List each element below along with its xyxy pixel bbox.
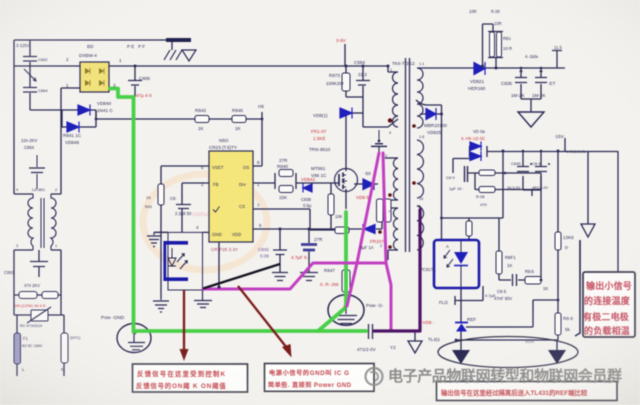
wire secondary gnd rail <box>456 340 558 350</box>
transformer polarity dots <box>378 118 416 249</box>
diode VD847 <box>340 108 352 119</box>
node left Power GND circle <box>117 324 151 353</box>
node SGND ellipse <box>438 337 578 368</box>
wire fb row1 <box>468 173 542 190</box>
node H5 <box>253 112 262 166</box>
fuse F1 <box>14 333 21 364</box>
diode VD845 <box>363 179 374 191</box>
wire choke bottom <box>14 249 61 251</box>
faint watermark ring <box>143 174 267 270</box>
wire varistor row <box>14 315 64 333</box>
wire L rail <box>13 40 15 194</box>
wire top PE bus <box>14 39 167 41</box>
resistor snub B <box>385 199 392 222</box>
resistor 15K gate <box>279 186 293 193</box>
wire N rail <box>60 88 62 194</box>
wire AC N to bridge <box>61 87 80 89</box>
callout box 1 <box>133 364 248 392</box>
node right Power GND circle <box>328 295 364 326</box>
resistor discharge 2 <box>42 292 58 299</box>
resistor R846b <box>232 116 246 123</box>
ground bar PE <box>166 38 191 42</box>
transformer T1 primary winding <box>388 72 398 127</box>
resistor R840 27R <box>279 170 293 177</box>
ground in right PowerGND <box>335 305 357 324</box>
wire snubber bottom <box>346 97 363 127</box>
wire choke top <box>14 193 61 195</box>
resistor 13K6 <box>555 232 561 250</box>
ground PE triangle <box>182 50 196 61</box>
wire REF row <box>466 300 533 327</box>
wire switch node magenta <box>203 153 391 329</box>
capacitor C863 <box>30 262 48 267</box>
wire primary GND green <box>110 89 366 333</box>
transformer pin numbers <box>380 62 424 248</box>
wire R812 branch <box>483 24 504 68</box>
capacitor C836 <box>535 70 547 83</box>
wire AC terminals <box>17 363 64 376</box>
callout box right <box>583 272 635 337</box>
wire magenta strand A <box>347 153 379 306</box>
wire VD845 <box>354 183 378 185</box>
resistor left rail <box>158 184 164 205</box>
ground left of opto <box>147 232 161 246</box>
transformer T1 core <box>406 58 410 252</box>
resistor 27R CS <box>335 227 349 234</box>
wire upper fb row <box>442 218 504 240</box>
wire opto out / TL431 <box>460 288 462 340</box>
wire -15V tick <box>564 138 566 151</box>
wire MOSFET source <box>345 189 347 209</box>
ground C842 <box>272 273 288 281</box>
ground magenta node <box>194 290 212 308</box>
ground triangle C835 <box>518 112 544 127</box>
resistor snub A <box>377 199 384 222</box>
inductor L1 choke windings <box>28 194 56 250</box>
wire right edge drop <box>575 240 580 336</box>
resistor R836 <box>525 277 541 285</box>
diode FR107 <box>363 224 375 234</box>
capacitor bulk 450V <box>128 81 142 86</box>
wire VD846 loop <box>62 110 96 127</box>
wire startup resistor row <box>96 110 262 119</box>
wire to VD840 <box>30 109 96 111</box>
wire IC GND drop <box>218 242 220 287</box>
diode VD846 <box>67 122 79 133</box>
wire +310V bus <box>109 66 388 72</box>
resistor 10K gate <box>328 194 334 215</box>
resistor R846 5K6 <box>555 313 561 335</box>
wire drain to winding <box>363 119 398 127</box>
capacitor C845 <box>517 163 532 172</box>
wire second output rail <box>487 151 618 153</box>
annotation arrow 1 <box>180 290 189 361</box>
diode VD840 <box>78 105 90 116</box>
varistor RV <box>27 307 51 323</box>
wire snubber C584 <box>362 66 364 97</box>
capacitor C864a <box>23 88 37 93</box>
transformer T1 secondary winding1 <box>417 68 423 128</box>
callout strip bottom <box>437 382 618 401</box>
wire FB to C841 <box>182 183 209 232</box>
IC pin numbers <box>196 160 262 230</box>
annotation line to C842 gnd <box>203 264 280 289</box>
wire +15V rail top <box>485 51 565 69</box>
wire CS <box>253 209 336 230</box>
resistor R843 <box>195 116 209 123</box>
resistor R873 <box>342 73 350 91</box>
thermistor NTC <box>61 333 68 363</box>
transistor Q1 MOSFET <box>335 169 358 192</box>
capacitor 4.7uF 50V <box>301 245 317 251</box>
capacitor Y2 <box>369 324 373 339</box>
wire green sense drop <box>344 212 348 306</box>
ground in left PowerGND <box>128 331 145 350</box>
wire drain <box>340 113 346 171</box>
ground SGND 1 <box>452 350 470 364</box>
transformer T1 winding3 <box>393 208 398 250</box>
capacitor C862 <box>23 57 37 62</box>
ground snubber antenna <box>371 130 387 153</box>
capacitor C841 <box>176 205 191 209</box>
wire R8F1 <box>499 218 525 280</box>
callout box 2 <box>265 364 375 392</box>
IC pin names <box>212 165 249 237</box>
wire X-cap stack <box>29 40 31 110</box>
wire sec pin to VD821 <box>417 67 474 69</box>
varistor tick <box>24 69 36 81</box>
capacitor C840 <box>465 166 468 182</box>
wire 310V tick <box>344 44 346 66</box>
capacitor C842 <box>273 250 287 255</box>
wire lower rails <box>14 250 61 315</box>
resistor R847 sense <box>342 270 350 292</box>
capacitor C8x5 fb <box>513 274 517 286</box>
wire sec winding3 stub <box>417 206 420 210</box>
wire Y2 gnd stub <box>414 332 416 341</box>
wire aux winding top <box>385 157 398 159</box>
diode TL431 <box>455 323 468 332</box>
wire feedback row <box>475 173 558 300</box>
wire rail2 taps <box>503 151 541 218</box>
resistor discharge 1 <box>19 292 37 299</box>
diode VD826 pair <box>470 142 481 162</box>
choke pins <box>16 188 57 248</box>
ground triangle rail2 <box>581 224 595 237</box>
wire C842 stub <box>279 229 281 272</box>
wire snubber R873 <box>345 66 347 97</box>
ground 4.7uF <box>300 273 318 281</box>
ground triangle Y2 <box>408 341 422 353</box>
op-amp U1 PWM controller <box>209 151 253 242</box>
transformer T1 aux winding <box>393 158 398 200</box>
wire diode to clamp <box>352 112 363 114</box>
wire sec pin2 <box>453 146 487 173</box>
optocoupler U2 primary side <box>164 232 203 290</box>
bridge rectifier BD <box>80 62 109 92</box>
ground PE chassis <box>164 42 182 60</box>
capacitor C846 <box>535 163 550 172</box>
wire Y2 purple <box>374 210 420 331</box>
wire opto top lead <box>154 231 168 233</box>
wire VD825 branch <box>416 100 442 240</box>
wire pin4 row <box>154 231 209 233</box>
wire right edge chain <box>617 151 619 274</box>
watermark logo circle <box>366 368 383 385</box>
wire magenta strand B <box>383 153 391 329</box>
optocoupler U3 PC817A <box>434 240 479 288</box>
wire bulk cap <box>134 66 136 97</box>
resistor fb A <box>479 170 495 176</box>
wire gate pulldown <box>330 183 332 230</box>
wire FLG branch <box>455 286 483 305</box>
capacitor C864 choke <box>29 155 45 189</box>
wire discharge resistor row <box>14 294 61 296</box>
resistor 1K vert <box>466 221 472 236</box>
wire green bridge to rail <box>110 89 134 333</box>
resistor R875 470 <box>479 187 495 193</box>
wire magenta bottom run <box>203 263 386 289</box>
wire Drv gate network <box>253 173 339 189</box>
annotation arrow 2 <box>238 286 292 358</box>
transformer T1 secondary winding3 <box>417 206 424 250</box>
wire C835 pair <box>521 68 541 112</box>
wire AC L to bridge <box>14 65 80 67</box>
wire VDD bus <box>253 200 398 229</box>
transformer T1 secondary winding2 <box>417 140 423 198</box>
resistor R8F1 <box>496 251 502 274</box>
wire divider chain <box>557 151 559 340</box>
wire green bottom bus <box>134 329 366 333</box>
wire C863 stubs <box>38 250 40 277</box>
diode VD821 <box>474 62 485 75</box>
wire gnd spur <box>587 151 589 224</box>
wire 4.7uF stub <box>308 229 310 272</box>
diode VD842 <box>303 184 312 193</box>
wire opto bottom lead <box>203 289 205 291</box>
wire left rail to ground <box>160 166 162 298</box>
resistor R813 pair <box>490 32 495 57</box>
wire winding3 <box>386 208 398 260</box>
wire VSET <box>161 165 209 167</box>
diode VD825 <box>426 108 436 120</box>
capacitor C584 <box>356 81 370 86</box>
ground left rail <box>153 298 169 312</box>
capacitor C835 <box>515 70 527 83</box>
ground SGND 2 <box>548 350 566 364</box>
wire green diagonal into PowerGND <box>318 309 344 331</box>
